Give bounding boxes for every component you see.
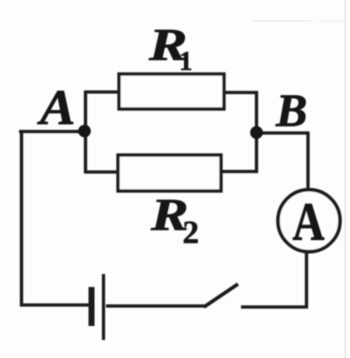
ammeter A1 body bbox=[278, 190, 340, 252]
battery BT1 long plate bbox=[102, 274, 105, 340]
resistor R1 bbox=[119, 74, 224, 109]
wire switch right contact bbox=[241, 305, 308, 308]
battery BT1 short plate bbox=[89, 287, 95, 326]
wire A to left rail bbox=[19, 130, 85, 133]
node A junction dot bbox=[78, 125, 91, 138]
wire bottom left to battery bbox=[20, 303, 89, 306]
node B junction dot bbox=[250, 126, 263, 139]
wire node A up stub bbox=[84, 91, 87, 132]
svg-text:A: A bbox=[293, 192, 325, 252]
svg-text:1: 1 bbox=[179, 46, 193, 76]
wire node A down stub bbox=[84, 131, 87, 174]
wire R1 left lead bbox=[85, 90, 119, 93]
wire node B up stub bbox=[255, 91, 258, 131]
wire right rail lower bbox=[305, 250, 308, 309]
wire battery to switch bbox=[106, 304, 206, 307]
switch S1 blade bbox=[204, 284, 238, 307]
svg-text:2: 2 bbox=[183, 215, 200, 251]
wire node B to right corner bbox=[256, 131, 310, 134]
wire R2 left lead bbox=[85, 170, 118, 173]
wire ammeter top to corner bbox=[306, 133, 309, 189]
wire R1 right lead bbox=[224, 91, 258, 94]
svg-text:A: A bbox=[37, 80, 75, 135]
wire R2 right lead bbox=[221, 170, 258, 173]
resistor R2 bbox=[118, 155, 221, 191]
svg-text:B: B bbox=[275, 85, 307, 137]
wire node B down stub bbox=[255, 131, 258, 173]
wire left rail bbox=[20, 131, 23, 307]
